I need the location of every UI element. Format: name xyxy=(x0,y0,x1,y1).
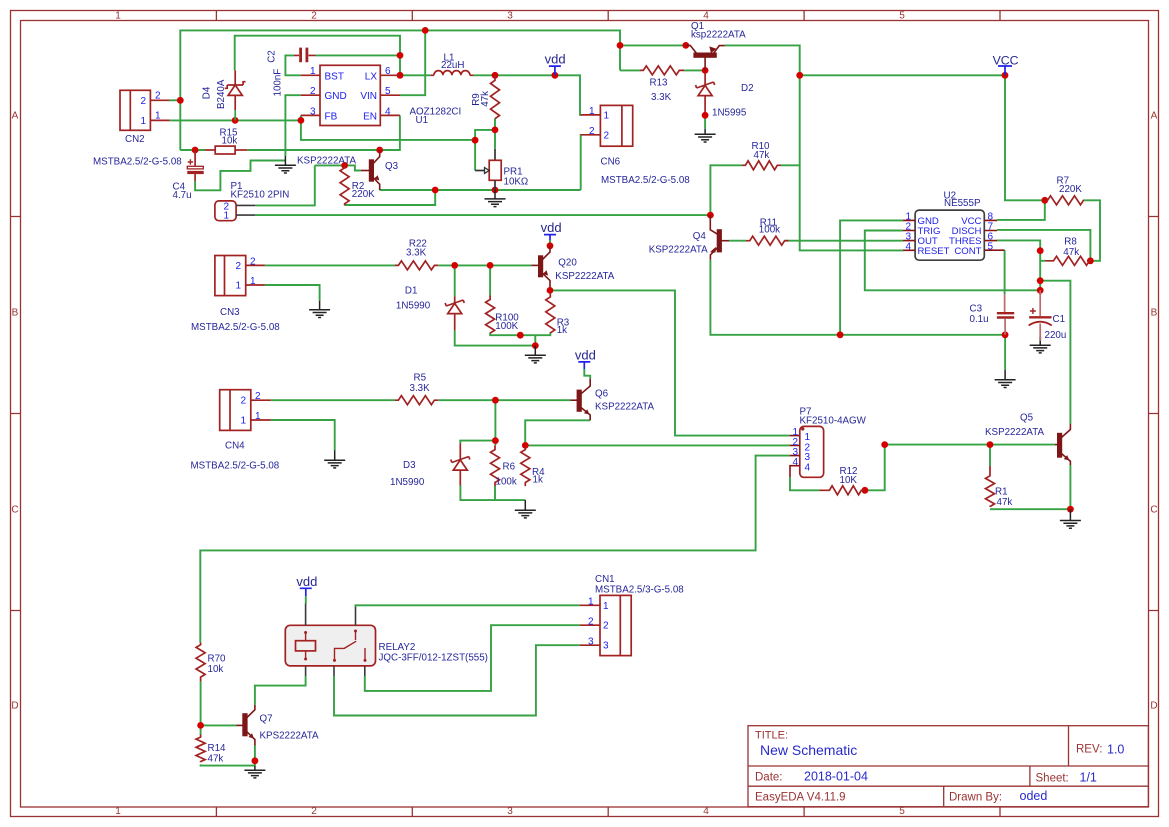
svg-text:220u: 220u xyxy=(1045,330,1067,341)
svg-text:22uH: 22uH xyxy=(441,60,464,71)
junction (1040.2,250.7) xyxy=(1037,247,1044,254)
junction (884.7,444.6) xyxy=(881,441,888,448)
wire D2 anode to ground xyxy=(704,112,706,129)
junction (710.4,215.1) xyxy=(707,212,714,219)
wire R6 bottom xyxy=(494,486,496,500)
junction (535.3,345.6) xyxy=(532,342,539,349)
ground G9 C1 xyxy=(1030,341,1051,353)
svg-text:100k: 100k xyxy=(496,477,517,488)
capacitor C1 (polarized) xyxy=(1029,316,1051,318)
resistor R5 xyxy=(395,396,438,405)
resistor R11 xyxy=(746,236,789,245)
wire C2 left to BST xyxy=(285,55,300,75)
ground G6 CN4 xyxy=(324,450,345,468)
svg-text:R13: R13 xyxy=(650,78,669,89)
net labels serif xyxy=(296,51,1018,589)
junction (705.1,70.4) xyxy=(702,67,709,74)
junction (195.1,150) xyxy=(192,147,199,154)
wire R9 bottom / PR1 wiper xyxy=(475,119,495,171)
svg-text:1: 1 xyxy=(310,66,316,77)
wire Q5 base rail xyxy=(885,444,1055,446)
VCC flag xyxy=(998,66,1012,75)
svg-text:4: 4 xyxy=(906,241,912,252)
junction (435.2,190) xyxy=(432,187,439,194)
wire CN6 pin2 down to ground rail xyxy=(580,135,582,190)
resistor R2 (vertical) xyxy=(340,165,349,205)
svg-text:1/1: 1/1 xyxy=(1080,771,1097,785)
resistor R9 (vertical) xyxy=(491,75,500,118)
wire relay coil+ vdd xyxy=(305,596,307,603)
svg-text:R5: R5 xyxy=(414,373,427,384)
junction (620,45.4) xyxy=(617,42,624,49)
svg-text:C3: C3 xyxy=(970,304,983,315)
svg-text:2: 2 xyxy=(311,806,317,817)
svg-text:NE555P: NE555P xyxy=(944,198,981,209)
svg-text:2: 2 xyxy=(141,96,147,107)
wire Q1 collector rail to VCC xyxy=(800,75,1045,200)
svg-text:1: 1 xyxy=(155,110,161,121)
svg-text:KSP2222ATA: KSP2222ATA xyxy=(555,271,614,282)
svg-text:LX: LX xyxy=(365,71,378,82)
svg-text:CN6: CN6 xyxy=(601,157,621,168)
wire CN4 pin1 to ground xyxy=(271,420,335,450)
transistor Q6 xyxy=(571,379,591,420)
ground G2 D2 xyxy=(695,129,716,142)
junction (454.7,265.4) xyxy=(451,262,458,269)
ground G4 CN3 xyxy=(309,301,330,318)
svg-text:1: 1 xyxy=(588,596,594,607)
svg-text:C: C xyxy=(11,505,18,516)
svg-text:2018-01-04: 2018-01-04 xyxy=(804,770,868,784)
inductor L1 xyxy=(430,71,473,76)
junction (495,75.3) xyxy=(492,72,499,79)
junction (344.6,165.4) xyxy=(341,162,348,169)
wire R70 bottom to Q7 base xyxy=(201,682,237,735)
svg-text:vdd: vdd xyxy=(545,51,566,66)
svg-text:BST: BST xyxy=(325,71,344,82)
svg-text:1: 1 xyxy=(141,116,147,127)
svg-text:1: 1 xyxy=(224,211,230,222)
wire R5 to Q6 base xyxy=(438,399,570,401)
junction (300.9,120.4) xyxy=(298,117,305,124)
diode D1 zener 1N5990 xyxy=(454,297,456,304)
svg-text:3.3K: 3.3K xyxy=(410,383,431,394)
svg-text:vdd: vdd xyxy=(541,220,562,235)
svg-text:2: 2 xyxy=(589,126,595,137)
svg-text:REV:: REV: xyxy=(1076,744,1102,756)
wire Q4 base to R11 to OUT xyxy=(729,240,903,242)
junction (495.4,440.6) xyxy=(492,437,499,444)
svg-text:KSP2222ATA: KSP2222ATA xyxy=(649,244,708,255)
svg-text:220K: 220K xyxy=(1059,184,1082,195)
svg-text:KF2510 2PIN: KF2510 2PIN xyxy=(231,189,290,200)
wire Q6 vdd jog xyxy=(584,369,590,379)
svg-text:MSTBA2.5/2-G-5.08: MSTBA2.5/2-G-5.08 xyxy=(191,460,280,471)
svg-text:VIN: VIN xyxy=(360,91,377,102)
wire VIN jog xyxy=(400,30,425,95)
svg-text:D2: D2 xyxy=(741,83,754,94)
vdd flag relay xyxy=(300,588,312,596)
svg-text:1N5995: 1N5995 xyxy=(712,107,747,118)
ground G1 U1 xyxy=(275,156,296,173)
svg-text:MSTBA2.5/2-G-5.08: MSTBA2.5/2-G-5.08 xyxy=(191,322,280,333)
svg-text:10k: 10k xyxy=(222,136,238,147)
svg-text:1.0: 1.0 xyxy=(1107,743,1124,757)
ground symbols xyxy=(244,129,1081,778)
wire R14 bottom rail xyxy=(201,764,255,765)
wire R7 right link xyxy=(1084,200,1100,260)
svg-text:1: 1 xyxy=(589,106,595,117)
svg-text:KSP2222ATA: KSP2222ATA xyxy=(985,427,1044,438)
connector CN4 xyxy=(220,390,271,431)
junction (554.9,75.3) xyxy=(552,72,559,79)
svg-text:1k: 1k xyxy=(557,325,567,336)
wire top rail B xyxy=(235,36,400,76)
wire D1 top xyxy=(454,265,456,296)
resistor R3 (vertical) xyxy=(546,294,555,333)
svg-text:Q7: Q7 xyxy=(260,714,273,725)
junction (425.2,30.4) xyxy=(422,27,429,34)
wire D3 R6 node xyxy=(460,400,495,445)
wire Q7 collector to relay coil- xyxy=(255,676,306,705)
svg-text:KSP2222ATA: KSP2222ATA xyxy=(595,402,654,413)
svg-text:4: 4 xyxy=(385,106,391,117)
junction (1005.1,334.8) xyxy=(1002,331,1009,338)
wire relay contact top to CN1 pin1 xyxy=(356,605,580,607)
IC U2 NE555P xyxy=(915,210,984,260)
svg-text:1: 1 xyxy=(255,411,261,422)
capacitor C3 xyxy=(997,313,1014,317)
resistor R12 xyxy=(820,486,865,495)
junction (1090.4,260.8) xyxy=(1087,257,1094,264)
wire relay NC to CN1 pin2 xyxy=(365,625,580,691)
connector CN1 xyxy=(580,595,632,655)
wire R12 right up to base rail xyxy=(865,445,885,491)
svg-text:D4: D4 xyxy=(202,86,213,99)
svg-text:B: B xyxy=(1151,308,1158,319)
svg-text:B240A: B240A xyxy=(216,79,227,109)
svg-text:FB: FB xyxy=(325,111,338,122)
title block xyxy=(748,726,1148,807)
wire R13 left xyxy=(620,45,686,70)
svg-text:1: 1 xyxy=(241,416,247,427)
resistor R13 xyxy=(640,66,684,75)
wire Q1 emitter to vcc rail xyxy=(725,45,903,250)
svg-text:47k: 47k xyxy=(208,754,224,765)
svg-text:6: 6 xyxy=(385,66,391,77)
svg-text:VCC: VCC xyxy=(993,54,1019,68)
wire C3 bottom to ground xyxy=(1004,335,1006,370)
wire P7 pin3 to bottom rail xyxy=(200,456,789,643)
svg-text:RELAY2: RELAY2 xyxy=(379,642,416,653)
resistor R22 xyxy=(395,261,438,270)
junction (180.3,100.3) xyxy=(177,97,184,104)
wire U2 DISCH xyxy=(997,230,1090,261)
potentiometer PR1 box xyxy=(494,149,496,161)
junction (495.4,400.2) xyxy=(492,397,499,404)
svg-text:Sheet:: Sheet: xyxy=(1036,773,1069,785)
svg-text:vdd: vdd xyxy=(296,574,317,589)
resistor R1 (vertical) xyxy=(986,466,995,507)
resistor R6 (vertical) xyxy=(491,446,500,487)
junction (400,55.4) xyxy=(397,52,404,59)
svg-text:R70: R70 xyxy=(208,654,227,665)
wire R15 row / EN net xyxy=(180,115,400,150)
svg-text:1: 1 xyxy=(115,806,121,817)
wire R100 top xyxy=(489,265,491,295)
wire relay common to CN1 pin3 xyxy=(334,645,580,715)
svg-text:KPS2222ATA: KPS2222ATA xyxy=(260,731,319,742)
ground G3 PR1 xyxy=(485,190,506,207)
wire D3 bottom to rail xyxy=(460,486,525,501)
wire U2 CONT down to C3 xyxy=(1004,250,1006,294)
svg-text:47k: 47k xyxy=(754,150,770,161)
svg-text:47k: 47k xyxy=(1063,247,1079,258)
ground G11 Q7/R14 xyxy=(244,766,265,778)
transistor Q4 (mirrored) xyxy=(710,215,729,260)
svg-text:2: 2 xyxy=(588,616,594,627)
svg-text:A: A xyxy=(1151,111,1158,122)
wire CN3 pin1 to ground xyxy=(265,285,320,301)
svg-text:EN: EN xyxy=(363,111,377,122)
svg-text:New Schematic: New Schematic xyxy=(760,742,857,758)
junction (799.7,75.3) xyxy=(796,72,803,79)
svg-text:3: 3 xyxy=(588,636,594,647)
connector CN3 xyxy=(215,256,265,296)
wire Q4 emitter ground rail xyxy=(710,260,1005,335)
svg-text:CONT: CONT xyxy=(954,246,981,257)
resistor R70 (vertical) xyxy=(196,643,205,682)
svg-text:2: 2 xyxy=(311,11,317,22)
junction (1040.2,290.3) xyxy=(1037,287,1044,294)
resistor R4 (vertical) xyxy=(521,447,530,486)
svg-text:10KΩ: 10KΩ xyxy=(504,176,529,187)
svg-text:C1: C1 xyxy=(1053,314,1066,325)
junction (864.9,490.3) xyxy=(862,487,869,494)
junction (550,290.4) xyxy=(547,287,554,294)
resistor R7 xyxy=(1046,196,1085,205)
svg-text:2: 2 xyxy=(250,256,256,267)
svg-text:1: 1 xyxy=(250,276,256,287)
vdd flag Q20 xyxy=(544,235,556,240)
junction (490.1,265.4) xyxy=(487,262,494,269)
junction (254.9,760.8) xyxy=(252,757,259,764)
wire P7 pin2 long xyxy=(525,444,789,446)
svg-text:1k: 1k xyxy=(533,475,543,486)
ground G5 R100/R3 xyxy=(525,346,546,363)
transistor Q5 xyxy=(1055,424,1071,465)
svg-text:TITLE:: TITLE: xyxy=(755,730,788,742)
wire C1 node to Q5 collector xyxy=(1040,281,1070,424)
wire Q20 emitter to P7 pin1 xyxy=(550,288,790,436)
svg-text:vdd: vdd xyxy=(575,348,596,363)
connector CN2 xyxy=(120,90,170,130)
svg-text:D: D xyxy=(11,701,18,712)
wire FB net xyxy=(301,115,475,139)
svg-text:2: 2 xyxy=(604,130,610,141)
junction (400,75.3) xyxy=(397,72,404,79)
diode D4 schottky B240A xyxy=(234,70,236,85)
svg-text:1: 1 xyxy=(115,11,121,22)
wire C1 bottom xyxy=(1039,337,1041,341)
capacitor C2 xyxy=(301,48,307,63)
junction (840.1,334.8) xyxy=(837,331,844,338)
connector CN6 xyxy=(581,105,633,146)
wire Q20 base net xyxy=(265,264,531,266)
svg-text:2: 2 xyxy=(236,261,242,272)
wire P1 pin2 net xyxy=(255,165,314,205)
svg-text:MSTBA2.5/3-G-5.08: MSTBA2.5/3-G-5.08 xyxy=(595,585,684,596)
svg-text:C2: C2 xyxy=(266,50,277,63)
wire P1 pin1 long net xyxy=(255,214,710,216)
svg-text:4: 4 xyxy=(703,806,709,817)
transistor Q7 xyxy=(237,705,255,746)
svg-text:10k: 10k xyxy=(208,664,224,675)
wire R1 bottom to Q5 emitter xyxy=(990,465,1070,509)
wire R10 net xyxy=(710,165,799,215)
wire R1 top xyxy=(989,445,991,466)
junction (990,444.6) xyxy=(987,441,994,448)
wire U2 THRES down C1 xyxy=(997,240,1040,295)
junction (1005,75.3) xyxy=(1002,72,1009,79)
svg-text:100K: 100K xyxy=(495,321,518,332)
wire U1 GND pin to ground xyxy=(285,95,300,156)
svg-text:KSP2222ATA: KSP2222ATA xyxy=(297,155,356,166)
svg-text:MSTBA2.5/2-G-5.08: MSTBA2.5/2-G-5.08 xyxy=(93,157,182,168)
connector P7 xyxy=(790,426,824,477)
svg-text:CN3: CN3 xyxy=(220,307,240,318)
wire C2 right xyxy=(316,54,401,56)
connector P1 xyxy=(215,201,255,221)
resistor R100 (vertical) xyxy=(486,296,495,334)
capacitor C4 (polarized) xyxy=(194,150,196,166)
resistor R10 xyxy=(742,161,781,170)
IC U1 xyxy=(301,65,400,125)
wire D1 bottom rail xyxy=(455,330,536,345)
junction (1044.8,200.3) xyxy=(1041,197,1048,204)
svg-text:oded: oded xyxy=(1020,789,1048,803)
junction (705.1,115.3) xyxy=(702,112,709,119)
ground G10 Q5/R1 xyxy=(1060,509,1081,528)
wire Q3 base net xyxy=(315,165,361,170)
svg-text:2: 2 xyxy=(241,396,247,407)
wire R13 right to D2 xyxy=(684,70,705,73)
svg-text:Date:: Date: xyxy=(755,772,783,784)
junction (520.3,335.2) xyxy=(517,332,524,339)
svg-text:D1: D1 xyxy=(405,285,418,296)
svg-text:GND: GND xyxy=(325,91,347,102)
wire LX row to L1 and vdd and CN6 pin1 xyxy=(400,75,581,115)
pin numbers / names blue xyxy=(141,66,994,652)
wire Q6 emitter to R4 node xyxy=(525,420,590,447)
svg-text:1: 1 xyxy=(604,110,610,121)
svg-text:5: 5 xyxy=(385,86,391,97)
svg-text:EasyEDA V4.11.9: EasyEDA V4.11.9 xyxy=(755,792,846,804)
svg-text:C: C xyxy=(1150,505,1157,516)
wire Q20 collector vdd xyxy=(549,240,551,246)
svg-text:MSTBA2.5/2-G-5.08: MSTBA2.5/2-G-5.08 xyxy=(601,175,690,186)
svg-text:R14: R14 xyxy=(208,743,227,754)
svg-text:R6: R6 xyxy=(503,462,516,473)
svg-text:47k: 47k xyxy=(480,91,491,107)
vdd flag Q6 xyxy=(578,362,590,369)
diode D2 zener 1N5995 xyxy=(704,73,706,85)
svg-text:3.3K: 3.3K xyxy=(406,248,427,259)
transistor Q3 xyxy=(361,150,380,190)
transistor Q20 xyxy=(531,246,550,288)
wire CN2 pin2 to vertical xyxy=(170,99,181,101)
junction (379.7,150) xyxy=(376,147,383,154)
wire U2 VCC pin8 xyxy=(997,200,1045,220)
svg-text:ksp2222ATA: ksp2222ATA xyxy=(691,30,746,41)
wire R100 R3 bottom rail xyxy=(490,333,550,346)
vdd flag top xyxy=(549,66,561,75)
power flags xyxy=(300,66,1012,596)
svg-text:2: 2 xyxy=(310,86,316,97)
svg-text:Drawn By:: Drawn By: xyxy=(949,792,1002,804)
svg-text:3.3K: 3.3K xyxy=(651,92,672,103)
ground G8 C3 xyxy=(995,370,1016,388)
svg-text:U1: U1 xyxy=(416,115,429,126)
svg-text:B: B xyxy=(12,308,19,319)
svg-text:5: 5 xyxy=(899,806,905,817)
svg-text:CN4: CN4 xyxy=(225,441,245,452)
svg-text:RESET: RESET xyxy=(918,246,950,257)
wire Q7 emitter down xyxy=(254,746,256,766)
wire U2 TRIG net xyxy=(865,231,1040,291)
wire U2 GND to ground rail xyxy=(840,220,903,334)
junction (200.6,725.4) xyxy=(197,722,204,729)
svg-text:A: A xyxy=(12,111,19,122)
svg-text:4.7u: 4.7u xyxy=(173,190,192,201)
svg-text:4: 4 xyxy=(703,11,709,22)
svg-text:4: 4 xyxy=(805,462,811,473)
svg-text:2: 2 xyxy=(603,621,609,632)
wire Q3 emitter ground rail xyxy=(380,189,581,191)
wire CN4 pin2 to R5 xyxy=(271,399,395,401)
wire R3 top xyxy=(549,290,551,294)
relay RELAY2 xyxy=(285,604,375,677)
resistor R15 (box) xyxy=(205,149,215,151)
junction (235.1,120.4) xyxy=(232,117,239,124)
svg-text:JQC-3FF/012-1ZST(555): JQC-3FF/012-1ZST(555) xyxy=(379,653,488,664)
svg-text:0.1u: 0.1u xyxy=(970,314,989,325)
svg-text:CN2: CN2 xyxy=(125,134,145,145)
resistor R8 xyxy=(1046,256,1091,265)
svg-text:1: 1 xyxy=(236,281,242,292)
wire P7 pin4 to R12 xyxy=(790,477,820,490)
svg-text:4: 4 xyxy=(793,457,799,468)
junction (475.1,140.2) xyxy=(472,137,479,144)
wire top rail A xyxy=(180,30,620,150)
svg-text:3: 3 xyxy=(310,106,316,117)
svg-text:Q4: Q4 xyxy=(693,231,707,242)
U2 pin names xyxy=(918,216,982,257)
svg-text:D3: D3 xyxy=(403,460,416,471)
svg-text:220K: 220K xyxy=(352,189,375,200)
svg-text:5: 5 xyxy=(988,241,994,252)
junction (685.8,45.4) xyxy=(682,42,689,49)
PR1 wiper arrow xyxy=(475,170,484,172)
svg-text:2: 2 xyxy=(255,391,261,402)
svg-text:1: 1 xyxy=(603,601,609,612)
svg-text:Q20: Q20 xyxy=(558,257,577,268)
svg-text:KF2510-4AGW: KF2510-4AGW xyxy=(800,415,867,426)
svg-text:Q6: Q6 xyxy=(595,389,609,400)
designators / values xyxy=(93,21,1082,765)
resistor R14 (vertical) xyxy=(196,735,205,763)
svg-text:5: 5 xyxy=(899,11,905,22)
